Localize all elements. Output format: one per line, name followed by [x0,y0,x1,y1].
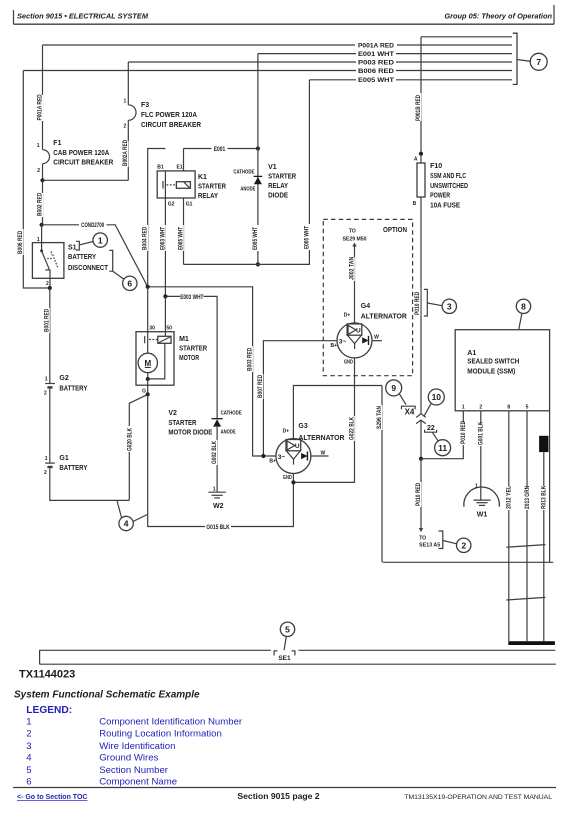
svg-text:D+: D+ [344,313,351,319]
svg-text:2: 2 [44,470,47,476]
svg-text:TO: TO [349,228,356,234]
svg-text:50: 50 [166,326,172,332]
svg-text:UNSWITCHED: UNSWITCHED [430,183,468,190]
sealed switch module A1 [455,330,549,411]
schematic frame bottom [383,561,554,563]
svg-text:P001A RED: P001A RED [358,43,395,49]
wire B004 to M1 [147,287,149,332]
callout circle 5 [280,622,294,636]
svg-text:D+: D+ [283,428,290,434]
svg-text:A: A [414,157,418,163]
svg-text:6: 6 [26,777,31,788]
wire label R013 BLK [541,485,548,510]
starter motor M1 [136,326,207,395]
wire G3 GND [292,474,294,483]
svg-text:M: M [144,359,151,368]
wire P003 RED vertical to F3 [127,62,129,105]
svg-text:POWER: POWER [430,193,450,200]
svg-text:B1: B1 [157,165,164,171]
wire P010 RED to SSM pin1 [421,411,463,459]
svg-text:1: 1 [26,716,31,727]
callout circle 2 [457,538,471,552]
node TO SE13 A5 [419,535,440,548]
svg-text:COND2700: COND2700 [81,223,105,229]
callout circle 9 [386,380,402,396]
svg-text:G: G [142,388,146,394]
node B003/B007 junction [261,454,265,458]
svg-text:BATTERY: BATTERY [59,465,87,472]
svg-text:GND: GND [283,475,292,481]
node B004/COND2700 junction [146,285,150,289]
svg-text:11: 11 [438,443,447,453]
svg-text:GND: GND [344,359,353,365]
svg-text:R013 BLK: R013 BLK [542,485,548,509]
wire label B002 RED [36,192,43,217]
svg-text:STARTER: STARTER [198,184,226,191]
wire crossing tick lower [506,597,545,600]
svg-text:TO: TO [419,535,426,541]
connector terminal R013 [539,436,548,452]
svg-text:G1: G1 [186,201,193,207]
svg-text:2: 2 [479,405,482,411]
node E003 junction [163,294,167,298]
bus wire P003 RED [128,61,512,63]
svg-text:P010 RED: P010 RED [415,291,421,315]
alternator G4 [331,303,407,365]
wire label 2012 YEL [506,486,513,510]
wire label 2013 GRN [524,486,531,510]
svg-text:B006 RED: B006 RED [358,69,395,75]
svg-text:E1: E1 [177,165,183,171]
svg-text:B+: B+ [269,459,276,465]
wire battery ground run [50,468,130,500]
callout 6 bracket [109,250,112,271]
bus wire B006 RED horizontal [23,70,512,72]
wire COND2700 [42,225,148,287]
svg-text:Wire Identification: Wire Identification [99,741,175,752]
wire 2012 YEL [508,411,510,641]
svg-text:G2: G2 [59,375,68,382]
wire G3 D+ riser [293,386,382,439]
svg-text:ANODE: ANODE [240,187,256,193]
svg-text:E005 WHT: E005 WHT [305,226,311,249]
svg-text:BATTERY: BATTERY [68,254,96,261]
wire label B004 RED [141,225,148,251]
diode V1 [233,149,296,265]
svg-text:G002 BLK: G002 BLK [212,440,218,464]
svg-text:Routing Location Information: Routing Location Information [99,729,222,740]
svg-text:MODULE (SSM): MODULE (SSM) [467,368,515,375]
svg-text:STARTER: STARTER [168,420,196,427]
svg-text:Ground Wires: Ground Wires [99,753,158,764]
wire label E001 [212,145,228,153]
legend items [26,716,243,787]
wire J002 TAN [354,244,356,323]
wire E003 WHT horizontal [165,296,217,418]
wire label G022 BLK [348,416,355,441]
horn W1 [464,484,500,519]
node F10 A junction [419,152,423,156]
svg-text:2: 2 [461,541,466,551]
wire G2 to G1 [49,389,51,464]
svg-text:2: 2 [124,123,127,129]
svg-text:RELAY: RELAY [198,193,218,200]
svg-text:2012 YEL: 2012 YEL [507,486,513,509]
svg-text:G4: G4 [361,303,370,310]
svg-text:A1: A1 [467,350,476,357]
wire label G015 BLK [205,523,231,531]
leader to callout 7 [517,60,531,62]
svg-text:1: 1 [37,143,40,149]
svg-text:W: W [374,335,379,341]
svg-text:W1: W1 [477,512,488,519]
wire F1 to F3 bottom link [43,179,129,181]
OPTION dashed box [323,219,412,375]
bus wire E005 WHT [309,79,512,81]
svg-text:Component Name: Component Name [99,777,177,788]
svg-text:2013 GRN: 2013 GRN [525,486,531,509]
svg-text:B003 RED: B003 RED [248,347,254,371]
callout circle 6 [123,276,137,290]
svg-text:B007 RED: B007 RED [258,374,264,398]
wire label P010 RED (pin1) [460,420,467,445]
wire label E005 WHT (K1 G1) [177,225,184,251]
alternator G3 [269,423,344,481]
callout 1 bracket [76,241,79,250]
svg-text:6: 6 [127,279,132,289]
wire B001 RED [49,288,51,384]
svg-text:1: 1 [98,235,103,245]
wire E003 WHT vertical from K1 G2 [164,198,166,296]
footer rule [13,787,556,789]
svg-text:CIRCUIT BREAKER: CIRCUIT BREAKER [53,159,113,166]
svg-text:RELAY: RELAY [268,183,288,190]
node M1 G junction [146,392,150,396]
svg-text:8: 8 [507,405,510,411]
svg-text:SEALED SWITCH: SEALED SWITCH [467,358,519,365]
svg-text:CATHODE: CATHODE [233,170,255,176]
svg-text:System Functional Schematic Ex: System Functional Schematic Example [14,690,200,701]
header rule [14,23,555,25]
svg-text:STARTER: STARTER [268,174,296,181]
wire E001 WHT riser [257,54,259,149]
bus wire P001A RED [43,44,513,46]
callout circle 7 [530,53,547,70]
svg-text:M1: M1 [179,336,189,343]
wire G3 W stub [311,455,329,457]
svg-text:4: 4 [26,753,32,764]
connector X4 [402,406,426,459]
svg-text:E001 WHT: E001 WHT [358,52,394,58]
svg-text:F10: F10 [430,163,442,170]
node E005 U-wire junction [256,262,260,266]
wire crossing tick upper [506,545,545,548]
bus wire E001 WHT [258,53,512,55]
wire B003 RED [148,287,276,456]
svg-text:2: 2 [37,168,40,174]
circuit breaker F3 [124,99,201,181]
relay K1 [157,149,226,265]
wire label E003 WHT [180,293,204,301]
ground bus bar [508,641,555,645]
svg-text:10A FUSE: 10A FUSE [430,202,460,209]
callout 3 bracket [424,289,427,316]
svg-text:SE13 A5: SE13 A5 [419,543,440,549]
callout circle 3 [442,299,456,313]
bracket to other sections [513,33,517,84]
wire B004 RED [148,149,166,287]
bus label E005 WHT [356,76,396,84]
svg-text:MOTOR: MOTOR [179,355,199,362]
node P010 junction [419,457,423,461]
callout circle 1 [93,233,107,247]
wire label B001 RED [43,308,50,333]
svg-text:F1: F1 [53,140,61,147]
svg-text:8: 8 [521,302,526,312]
svg-text:ALTERNATOR: ALTERNATOR [361,314,407,321]
svg-text:DISCONNECT: DISCONNECT [68,265,109,272]
svg-text:G020 BLK: G020 BLK [127,427,133,451]
svg-text:SE1: SE1 [278,655,291,662]
svg-text:U: U [356,328,361,335]
wire label G002 BLK [211,440,218,465]
bus label P001A RED [355,42,397,50]
svg-text:E005 WHT: E005 WHT [358,78,394,84]
svg-text:E003 WHT: E003 WHT [180,295,203,301]
svg-text:TM13135X19-OPERATION AND TEST: TM13135X19-OPERATION AND TEST MANUAL [404,794,552,801]
svg-text:3~: 3~ [339,338,347,345]
svg-text:X4: X4 [405,408,415,417]
svg-text:B001 RED: B001 RED [44,308,50,332]
wire 2013 GRN [526,411,528,641]
svg-text:7: 7 [536,57,541,67]
wire G020 BLK [129,394,147,500]
svg-text:5: 5 [526,405,529,411]
svg-text:<- Go to Section TOC: <- Go to Section TOC [17,794,87,801]
svg-text:Section 9015 • ELECTRICAL SYST: Section 9015 • ELECTRICAL SYSTEM [17,12,149,21]
svg-text:Section 9015 page 2: Section 9015 page 2 [237,791,319,801]
wire B002 RED [42,180,44,225]
svg-text:G015 BLK: G015 BLK [206,525,230,531]
svg-text:V1: V1 [268,164,277,171]
svg-text:S296 TAN: S296 TAN [377,406,383,429]
bus label E001 WHT [356,50,396,58]
svg-text:ANODE: ANODE [221,430,237,436]
svg-text:B002A RED: B002A RED [123,139,129,166]
svg-text:K1: K1 [198,174,207,181]
svg-text:B006 RED: B006 RED [18,230,24,254]
battery disconnect switch S1 [32,225,108,288]
wire label B002A RED [122,139,129,167]
svg-text:22: 22 [427,425,435,432]
wire G4 W stub [372,340,382,342]
svg-text:1: 1 [462,405,465,411]
svg-text:9: 9 [391,383,396,393]
callout circle 10 [428,389,444,405]
wire G001 BLK [480,411,482,500]
svg-text:ALTERNATOR: ALTERNATOR [298,435,344,442]
ground W2 [208,487,225,511]
wire label G020 BLK [126,426,133,452]
wire label G001 BLK [478,421,485,446]
svg-text:5: 5 [26,765,31,776]
svg-text:W2: W2 [213,503,224,510]
wire P001A RED vertical [42,45,44,150]
svg-text:4: 4 [124,519,129,529]
wire R013 BLK [543,452,545,641]
leader to callout 3 [428,303,443,306]
diode V2 [168,410,242,436]
wire label P001B RED [415,93,422,121]
svg-text:F3: F3 [141,102,149,109]
bus label B006 RED [356,67,396,75]
leader to callout 2 [443,541,457,544]
wire label J002 TAN [348,257,355,281]
page header right [444,5,554,24]
wire G015 BLK [148,394,294,526]
svg-text:B002 RED: B002 RED [38,192,44,216]
svg-text:10: 10 [432,392,442,402]
leader to callout 9 [399,394,406,405]
wire label E005 WHT (right riser) [304,224,311,250]
svg-text:E001: E001 [214,147,226,153]
svg-text:G001 BLK: G001 BLK [479,421,485,445]
node E001 junction [256,146,260,150]
wire G4 B+ (B007 RED) [263,341,337,456]
svg-text:3: 3 [26,741,31,752]
svg-text:G1: G1 [59,455,68,462]
circuit breaker F1 [37,140,114,180]
node F1/F3 junction [40,178,44,182]
svg-text:SSM AND FLC: SSM AND FLC [430,173,466,180]
svg-text:CIRCUIT BREAKER: CIRCUIT BREAKER [141,122,201,129]
section line SE1 [40,650,556,664]
svg-text:E005 WHT: E005 WHT [178,227,184,250]
svg-text:3: 3 [447,302,452,312]
svg-text:MOTOR DIODE: MOTOR DIODE [168,430,212,437]
svg-text:2: 2 [44,391,47,397]
svg-text:STARTER: STARTER [179,346,207,353]
bus label P003 RED [356,59,396,67]
wire label S296 TAN [376,405,383,430]
svg-text:P003 RED: P003 RED [358,60,395,66]
svg-text:OPTION: OPTION [383,227,407,234]
svg-text:FLC POWER 120A: FLC POWER 120A [141,112,197,119]
svg-text:P010 RED: P010 RED [461,420,467,444]
svg-text:Component Identification Numbe: Component Identification Number [99,716,243,727]
callout circle 4 [117,501,147,531]
callout 2 bracket [439,531,443,549]
svg-text:1: 1 [124,99,127,105]
svg-text:G022 BLK: G022 BLK [349,416,355,440]
svg-text:3~: 3~ [278,454,286,461]
svg-text:P001B RED: P001B RED [416,94,422,121]
svg-text:LEGEND:: LEGEND: [26,705,72,716]
svg-text:1: 1 [37,237,40,243]
svg-text:E005 WHT: E005 WHT [253,227,259,250]
wire label P010 RED (lower) [415,482,422,507]
svg-text:G2: G2 [168,201,175,207]
wire label COND2700 [79,221,107,229]
wire label P001A RED [36,94,44,121]
wire B006 RED vertical left [23,71,50,289]
node G3 GND junction [291,480,295,484]
leader to callout 6 [113,271,124,279]
leader to callout 5 [284,637,286,651]
fuse F10 [413,157,468,210]
wire G002 BLK [216,427,218,493]
svg-text:G3: G3 [298,423,307,430]
wire E001 [184,148,258,150]
svg-text:U: U [295,443,300,450]
svg-text:V2: V2 [168,410,177,417]
svg-text:P010 RED: P010 RED [416,482,422,506]
battery G2 [44,375,88,396]
svg-text:SE29 M50: SE29 M50 [343,237,367,243]
node S1 top junction [40,223,44,227]
svg-text:BATTERY: BATTERY [59,385,87,392]
svg-text:P001A RED: P001A RED [38,94,44,121]
battery G1 [44,455,88,476]
svg-text:2: 2 [26,729,31,740]
wire P010 RED (fuse to X4) [420,197,422,414]
wire M1 pin 50 [164,296,166,331]
svg-text:J002 TAN: J002 TAN [349,257,355,280]
wire label E003 WHT [159,225,166,251]
wire E005 bottom link [184,80,310,265]
svg-text:5: 5 [285,625,290,635]
callout circle 8 [516,299,530,313]
svg-text:E003 WHT: E003 WHT [160,227,166,250]
node TO SE29 M50 [343,228,367,242]
wire G022 BLK [293,358,354,483]
node B006/S1 pin2 junction [48,286,52,290]
svg-text:TX1144023: TX1144023 [19,669,75,681]
leader to callout 1 [80,242,94,245]
leader to callout 8 [519,314,522,329]
svg-text:S1: S1 [68,244,77,251]
wire label B007 RED [257,374,264,399]
svg-text:Section Number: Section Number [99,765,169,776]
svg-text:B: B [413,201,417,207]
wire P010 RED to SE13 [420,459,422,531]
svg-text:2: 2 [46,281,49,287]
svg-text:CATHODE: CATHODE [221,410,243,416]
svg-text:30: 30 [149,326,155,332]
svg-text:B004 RED: B004 RED [143,226,149,250]
wire label P010 RED at callout 3 [414,288,421,316]
svg-text:CAB POWER 120A: CAB POWER 120A [53,150,109,157]
leader to callout 11 [432,432,438,441]
wire label E005 WHT (V1 anode) [252,225,259,251]
wire P001B RED [420,37,422,163]
schematic frame right edge [549,411,551,563]
svg-text:DIODE: DIODE [268,193,288,200]
leader to callout 10 [424,403,432,416]
svg-text:1: 1 [45,456,48,462]
wire S296 TAN [381,386,383,563]
bus wire P001B RED top segment [421,36,512,38]
callout circle 11 [435,440,451,456]
wire label B003 RED [246,346,253,372]
svg-text:B+: B+ [331,343,338,349]
svg-text:1: 1 [45,376,48,382]
page header left [14,10,149,24]
svg-text:Group 05: Theory of Operation: Group 05: Theory of Operation [444,12,552,21]
pin label 22 with bracket [425,425,437,432]
wire label B006 RED [17,229,24,255]
